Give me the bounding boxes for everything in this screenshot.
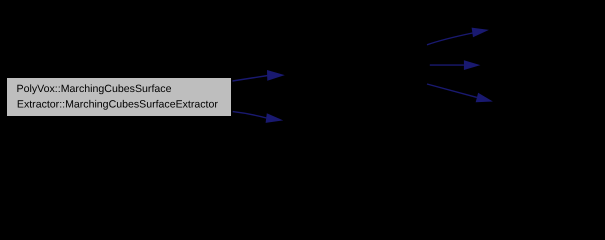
svg-text:Extractor::MarchingCubesSurfac: Extractor::MarchingCubesSurfaceExtractor <box>17 99 219 111</box>
wire: edge C (middle to right node, upper) <box>427 28 489 45</box>
svg-text:PolyVox::MarchingCubesSurface: PolyVox::MarchingCubesSurface <box>17 83 172 95</box>
node: PolyVox::MarchingCubesSurfaceExtractor (grey box) <box>7 78 231 116</box>
wire: edge D (middle to right node, horizontal) <box>430 60 481 70</box>
wire: edge B (box to middle node, lower) <box>233 112 284 123</box>
wire: edge E (middle to right node, lower) <box>427 84 493 102</box>
wire: edge A (box to middle node, upper) <box>233 70 285 81</box>
